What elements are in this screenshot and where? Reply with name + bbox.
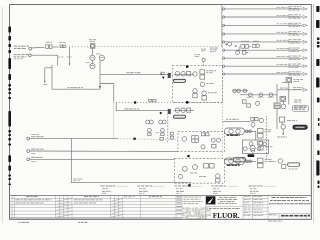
instrument+square <box>193 89 197 93</box>
instrument+square <box>202 91 206 95</box>
dashed cabinet edge <box>167 114 169 144</box>
hatch marks <box>56 199 71 201</box>
relay squares <box>200 70 205 74</box>
revision table <box>10 197 182 199</box>
DCS I/O symbol <box>90 44 95 49</box>
lower valve loop wire <box>174 110 194 112</box>
binding mark left y178 <box>8 178 11 180</box>
last-used label x137.5 <box>138 185 140 188</box>
binding mark left y74 <box>8 74 11 80</box>
binding mark right y118 <box>318 118 320 121</box>
binding mark left y143.5 <box>8 144 11 146</box>
binding mark left y58 <box>8 58 11 69</box>
terminal strip TB2 <box>168 109 171 114</box>
last-used label x100.5 <box>101 185 105 188</box>
junction dot <box>188 184 191 187</box>
binding mark left y165.5 <box>8 166 11 171</box>
signal L2 <box>27 150 30 153</box>
binding mark left y130 <box>8 130 11 133</box>
DCS bus vertical <box>221 5 223 47</box>
manifold capsule 1 <box>224 128 244 135</box>
small note texts <box>58 56 61 59</box>
valve loop 1: wire <box>174 73 194 75</box>
instrument <box>200 82 204 86</box>
binding mark left y44 <box>8 44 11 47</box>
rail y89.8 <box>278 89 303 91</box>
junction dot on top edge <box>186 65 188 67</box>
rail y8.9 <box>223 8 225 10</box>
rail y58.2 <box>223 57 225 59</box>
row-A flag <box>29 47 32 50</box>
binding mark right y160.5 <box>316 161 319 176</box>
relay block <box>192 136 199 143</box>
square low <box>212 144 216 148</box>
binding mark left y111 <box>8 111 11 127</box>
interlock circles <box>251 148 255 152</box>
binding mark right y150.5 <box>317 151 319 156</box>
riser x100 <box>99 61 101 90</box>
binding mark right y41.5 <box>317 42 320 45</box>
instrument <box>193 72 197 76</box>
binding mark left y155.3 <box>8 155 11 162</box>
feeder y121.4 <box>223 120 251 122</box>
dashed cabinet box 3 <box>174 158 224 183</box>
tag capsule 1 <box>174 79 186 82</box>
binding mark left y84 <box>8 84 11 87</box>
line label <box>68 87 70 88</box>
right mid riser <box>276 84 278 129</box>
row-A fuse symbols <box>60 45 62 48</box>
arrowhead at riser bottom <box>99 86 101 89</box>
divider <box>206 205 244 207</box>
branch y83.5 <box>100 84 114 103</box>
circle pair <box>211 138 215 142</box>
instrument grid 2x2 <box>146 120 150 124</box>
instrument <box>182 137 187 142</box>
binding mark right y134 <box>317 134 320 141</box>
svg-text:FLUOR.: FLUOR. <box>213 212 240 220</box>
rail y66.2 <box>223 65 225 67</box>
rail y25.4 <box>223 24 225 26</box>
title block top border <box>10 194 312 196</box>
row A terminal instruments <box>228 42 232 46</box>
note texts above box1 <box>201 48 203 51</box>
tiny squares above <box>149 99 152 101</box>
binding mark left y183.5 <box>8 184 11 186</box>
last-used label x174.5 <box>175 185 178 188</box>
binding mark left y97 <box>8 97 11 99</box>
row-A inline devices <box>46 45 49 49</box>
wire row B <box>31 55 58 65</box>
rail y33.9 <box>223 33 225 35</box>
wire y90.8 circle pair <box>232 90 248 92</box>
instruments in box3 <box>182 166 187 171</box>
wire from manifold <box>245 130 257 132</box>
bottom right cluster <box>278 159 282 163</box>
dashed cabinet box mid <box>178 132 224 152</box>
binding mark left y174.5 <box>8 175 11 177</box>
binding mark right y185.5 <box>318 186 320 189</box>
binding mark left y36 <box>8 36 11 41</box>
binding mark left y138 <box>8 138 11 141</box>
arrow stub x45 <box>44 68 46 82</box>
bracket jumper <box>45 67 52 69</box>
binding mark left y88 <box>8 88 11 91</box>
paper right edge shadow <box>313 4 315 223</box>
signal L1 <box>27 137 30 140</box>
binding mark right y20 <box>316 20 319 28</box>
node row-B label text <box>14 54 17 55</box>
rail y74.0 <box>223 73 225 75</box>
DCS dashed highway <box>95 46 222 48</box>
top right cluster <box>279 117 284 122</box>
rail y50.2 <box>223 49 225 51</box>
binding mark left y26.5 <box>8 27 11 33</box>
squares top <box>201 133 204 136</box>
binding mark right y77.5 <box>316 78 319 88</box>
branch riser from L1 <box>71 139 191 183</box>
black tag capsule A <box>293 106 309 111</box>
manifold capsule 2 <box>224 158 244 165</box>
feeder squares left of mid box <box>170 132 173 135</box>
drop from highway with arrow <box>69 47 71 64</box>
plot stamps below border <box>19 222 21 223</box>
solid signal y110.6 <box>116 110 168 112</box>
instrument column right <box>258 128 263 132</box>
stem DCS to bubble <box>92 48 94 55</box>
faint riser continuation <box>113 103 115 139</box>
wire dashes to DCS <box>66 46 90 48</box>
big instrument <box>250 146 255 151</box>
square with circle <box>286 77 292 82</box>
notes dense paragraph <box>183 207 185 210</box>
stem <box>91 60 93 63</box>
instrument bubble <box>99 55 104 60</box>
tag capsule for box3 <box>233 158 245 162</box>
dashed riser <box>265 116 267 161</box>
junction dot on bottom edge <box>186 101 188 103</box>
row-B flag <box>28 54 31 57</box>
address lines <box>219 196 223 199</box>
binding mark right y59 <box>316 59 319 66</box>
cluster squares <box>243 100 247 103</box>
bottom row of title block <box>268 212 311 214</box>
binding mark left y134 <box>8 134 11 136</box>
binding mark right y97.5 <box>317 98 320 103</box>
wire y94.8 <box>240 94 278 96</box>
valve circles <box>175 72 179 76</box>
instruments <box>280 96 285 101</box>
signal L3 <box>27 158 30 161</box>
Fluor logo square <box>206 196 215 204</box>
tag capsule 2 <box>174 115 186 118</box>
binding mark right y6 <box>316 6 319 12</box>
line label <box>127 72 129 73</box>
instrument bubble <box>90 55 95 60</box>
interlock solid box <box>243 140 269 154</box>
rail y17.0 <box>223 16 225 18</box>
drawing title lines <box>272 196 276 199</box>
transducer on riser <box>274 103 280 109</box>
junction <box>160 73 162 75</box>
fields column 1 <box>242 195 244 219</box>
wire <box>52 46 58 48</box>
last-used label x248.5 <box>249 185 253 188</box>
square on L1 <box>160 137 163 140</box>
binding mark left y92 <box>8 92 11 94</box>
binding mark right y180.5 <box>318 181 320 185</box>
sub instruments <box>236 51 240 55</box>
dashed bus continuation <box>222 47 224 159</box>
last-used label x211.5 <box>212 185 214 188</box>
wire vertical x52 <box>51 65 53 90</box>
binding mark right y123 <box>318 123 320 126</box>
binding mark left y50 <box>8 50 11 53</box>
node row-A label text <box>14 46 17 47</box>
notes area <box>205 195 207 219</box>
dashed cabinet box 1 <box>173 66 223 103</box>
wire row A <box>32 46 45 49</box>
dashed signal y102.5 <box>116 102 222 104</box>
black arrow down <box>162 77 165 80</box>
main signal y74.3 <box>100 73 168 75</box>
instrument bubble <box>90 63 95 68</box>
rail y41.9 <box>223 41 225 43</box>
wire tag texts <box>247 96 252 99</box>
paper left edge shadow <box>1 7 3 223</box>
black tag capsule B <box>293 125 307 129</box>
wire y89 to riser <box>52 88 100 90</box>
drawing number <box>281 215 285 217</box>
junction dot <box>134 101 136 103</box>
terminal strip TB1 <box>168 73 171 78</box>
loop inline rect <box>161 72 164 74</box>
binding mark right y45 <box>317 45 320 48</box>
black tag under box <box>248 154 255 157</box>
binding mark right y37.5 <box>317 38 320 41</box>
junction dot below box <box>187 155 189 157</box>
